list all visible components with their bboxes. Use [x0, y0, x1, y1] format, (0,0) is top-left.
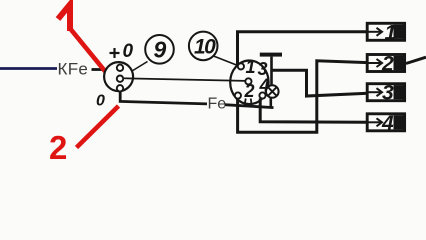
switch S1 body [230, 61, 268, 105]
switch S1 bottom pin b [250, 99, 253, 107]
svg-text:КFe: КFe [58, 60, 89, 79]
connector 2 [367, 53, 404, 76]
plug X1 pin 1 [117, 65, 123, 71]
svg-text:0: 0 [123, 41, 134, 62]
connector 3 [367, 82, 404, 105]
plug X1 pin 2 [117, 76, 123, 82]
svg-text:4: 4 [381, 112, 394, 135]
leader 10 [214, 56, 240, 66]
wire: switch contact 2 to connector 2 (down, right, up) [238, 61, 368, 133]
annotation 1 (red digit) [58, 5, 70, 32]
svg-text:2: 2 [244, 81, 255, 101]
switch S1 wiper contact [245, 78, 251, 84]
svg-text:10: 10 [194, 36, 216, 59]
callout circle 10 [189, 32, 218, 61]
wire: plug pin 2 to switch wiper (thin) [124, 78, 245, 81]
plug X1 pin 3 [117, 85, 123, 91]
wire: lamp to Fe wire [269, 98, 272, 108]
svg-text:3: 3 [382, 82, 394, 105]
connector 1 [367, 21, 404, 44]
wire top: switch contact 1 to connector 1 [238, 32, 369, 65]
connector 4 [367, 112, 404, 135]
switch S1 contact below 4 [259, 92, 265, 98]
wire KFe feed (blue) [0, 67, 57, 70]
wire dash from KFe to plug X1 [92, 68, 103, 71]
annotation leader 2 (red line) [77, 106, 119, 148]
label +0 [110, 48, 120, 58]
connector plug X1 body [104, 62, 133, 91]
wire: switch contact 4 to connector 4 [260, 99, 368, 123]
svg-text:0: 0 [96, 93, 105, 110]
lamp HL1 [266, 85, 279, 98]
svg-text:1: 1 [385, 21, 397, 44]
pushbutton bar symbol [260, 53, 282, 57]
wire: bar down to lamp [270, 57, 273, 86]
switch S1 bottom pin a [244, 99, 247, 107]
leader 9 [132, 62, 148, 72]
wire: connector 2 exit [406, 57, 426, 63]
switch S1 contact 1 [238, 63, 244, 69]
callout circle 9 [145, 35, 174, 64]
svg-text:2: 2 [49, 129, 67, 166]
svg-text:Fe: Fe [208, 96, 227, 113]
annotation leader 1 (red line) [71, 29, 107, 73]
svg-text:1: 1 [246, 57, 256, 77]
svg-text:9: 9 [154, 37, 167, 63]
wire: plug pin 3 down and bottom Fe wire [120, 92, 207, 104]
switch S1 contact below 2 [235, 92, 241, 98]
wire: lamp junction to connector 3 [272, 70, 369, 96]
svg-text:2: 2 [381, 53, 394, 76]
